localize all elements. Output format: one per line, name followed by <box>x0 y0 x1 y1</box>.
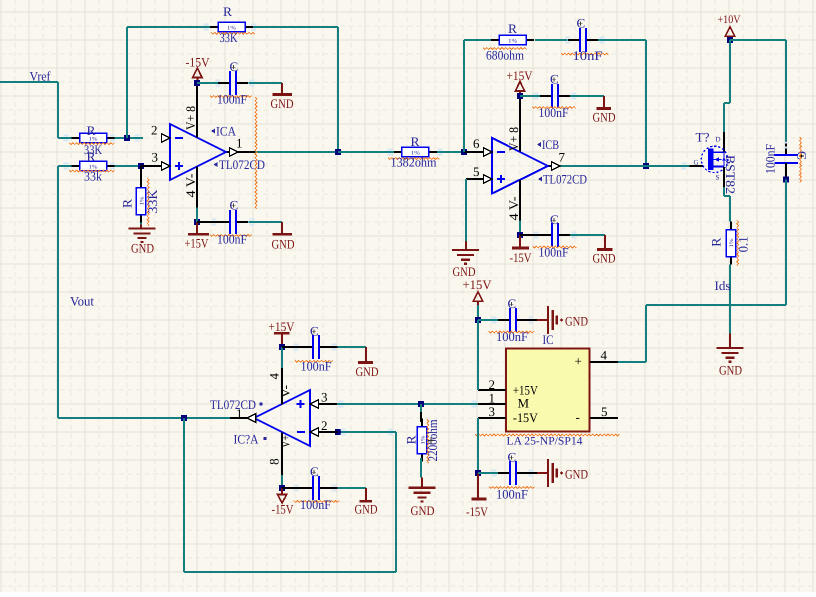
label R fb <box>223 4 232 19</box>
op-amp ICB 4 V- label <box>506 197 521 221</box>
wire ICB feedback right vertical <box>645 40 647 166</box>
svg-text:4: 4 <box>601 348 608 363</box>
pin 4 LA25 <box>590 348 618 363</box>
wire ICB feedback top a <box>464 39 491 41</box>
wire pin2 row IC?A <box>338 431 396 433</box>
svg-text:3: 3 <box>489 404 496 419</box>
op-amp ICA V+ 8 label <box>183 106 198 130</box>
op-amp IC?A pin 3 arrow <box>310 400 319 409</box>
op-amp ICB triangle <box>492 138 548 194</box>
label C LA25-bottom <box>508 450 517 465</box>
ground GND bar ICA-bottom <box>272 222 295 252</box>
wire pin4 net <box>618 305 786 362</box>
capacitor C 100nF IC?A-top <box>282 335 366 359</box>
svg-text:V-: V- <box>277 385 292 398</box>
resistor R 1382ohm <box>394 147 437 156</box>
svg-text:5: 5 <box>473 164 480 179</box>
wire ICA out to R1382 <box>338 151 395 153</box>
op-amp ICB V+ pin 8 line <box>519 96 521 152</box>
label R 1382 <box>411 134 420 149</box>
pin number 2 IC?A <box>321 418 328 433</box>
ground GND under R0.1 <box>717 348 744 378</box>
svg-text:10nF: 10nF <box>573 48 603 63</box>
ground GND rot LA25-top <box>528 306 588 334</box>
svg-text:+15V: +15V <box>463 277 493 292</box>
op-amp IC?A V- pin 4 line <box>281 368 283 405</box>
svg-text:G: G <box>694 159 699 167</box>
wire gate <box>646 165 703 167</box>
svg-text:6: 6 <box>473 136 480 151</box>
resistor R 0.1 <box>726 222 735 265</box>
svg-text:S: S <box>716 174 720 182</box>
svg-text:R: R <box>223 4 232 19</box>
svg-text:R: R <box>120 199 135 208</box>
svg-text:+15V: +15V <box>269 319 296 334</box>
svg-text:R: R <box>404 435 419 444</box>
svg-text:M: M <box>518 395 530 410</box>
node Vref label <box>30 69 52 84</box>
op-amp IC?A V- label <box>277 385 292 398</box>
value TL072CD IC?A <box>210 397 263 412</box>
svg-text:1%: 1% <box>729 238 735 247</box>
svg-text:7: 7 <box>559 150 566 165</box>
resistor R 680ohm feedback <box>491 35 534 44</box>
power +10V <box>718 14 742 40</box>
junction ICA V- node <box>194 219 200 225</box>
wire Vout loop bottom <box>184 571 396 573</box>
svg-text:100nF: 100nF <box>301 359 332 374</box>
svg-text:Vout: Vout <box>70 294 94 309</box>
value 100nF right-cap <box>763 137 802 183</box>
capacitor C 100nF ICB-bottom <box>520 223 605 247</box>
svg-text:TL072CD: TL072CD <box>219 157 265 172</box>
value 10nF <box>561 48 609 63</box>
pin label D <box>716 136 721 144</box>
svg-text:100nF: 100nF <box>217 92 247 107</box>
svg-text:R: R <box>709 237 724 246</box>
svg-text:-15V: -15V <box>466 504 489 519</box>
capacitor C 100nF IC?A-bottom <box>282 476 366 500</box>
pin number 7 ICB <box>559 150 566 165</box>
ground GND under ICB pin5 <box>452 250 479 279</box>
svg-text:100nF: 100nF <box>496 329 528 344</box>
svg-text:GND: GND <box>593 251 616 266</box>
svg-text:GND: GND <box>565 313 588 328</box>
label C ICB-top <box>550 72 559 87</box>
svg-text:1%: 1% <box>508 38 517 44</box>
junction LA25 -15V node <box>475 470 481 476</box>
op-amp ICB V+ 8 label <box>506 127 521 151</box>
op-amp ICA V+ pin 8 line <box>196 83 198 138</box>
svg-text:R: R <box>411 134 420 149</box>
junction +10V node <box>727 37 733 43</box>
power +15V IC?A <box>269 319 296 347</box>
op-amp ICA 4 V- label <box>183 174 198 198</box>
value 100nF IC?A-bottom <box>294 497 340 512</box>
wire R2200 hang <box>420 404 422 422</box>
power -15V IC?A <box>272 488 295 516</box>
svg-text:T?: T? <box>696 130 710 145</box>
wire pin3 junction to opamp <box>141 165 161 167</box>
junction ICA output node <box>335 149 341 155</box>
svg-text:3: 3 <box>321 390 328 405</box>
pin number 3 ICA <box>152 150 159 165</box>
wire ICA feedback top left <box>127 26 210 28</box>
svg-text:33K: 33K <box>220 30 238 45</box>
op-amp IC?A V+ label <box>278 435 293 448</box>
wire IC?A pin4 up <box>281 347 283 368</box>
wire drain pin <box>723 132 725 152</box>
label C 10nF <box>577 16 586 31</box>
svg-text:4 V-: 4 V- <box>183 174 198 198</box>
svg-text:GND: GND <box>272 237 295 252</box>
capacitor C 100nF LA25-top <box>478 308 528 332</box>
svg-text:4: 4 <box>267 373 282 380</box>
op-amp ICA V- pin 4 line <box>196 167 198 208</box>
op-amp ICA pin 3 arrow <box>162 162 171 171</box>
component LA25 box <box>506 348 590 431</box>
capacitor C 100nF ICA-top <box>197 71 282 95</box>
value 1382ohm <box>388 155 439 170</box>
junction right-cap bottom <box>783 176 789 182</box>
wire ICB pin5 down <box>465 179 467 250</box>
svg-text:V+: V+ <box>278 435 293 448</box>
junction ICB pin6 node <box>461 149 467 155</box>
svg-text:8: 8 <box>266 458 281 465</box>
svg-text:R: R <box>87 123 96 138</box>
junction Vout node <box>181 415 187 421</box>
wire +10V down to drain <box>724 40 730 132</box>
svg-text:GND: GND <box>593 110 616 125</box>
wire ICA output <box>226 151 338 153</box>
ground GND bar IC?A-bottom <box>355 488 378 516</box>
svg-text:+10V: +10V <box>718 14 742 26</box>
label C IC?A-bottom <box>310 464 319 479</box>
svg-text:100nF: 100nF <box>217 232 247 247</box>
junction ICB V- node <box>517 232 523 238</box>
label R row1 <box>87 123 96 138</box>
op-amp IC?A output arrow <box>247 414 256 423</box>
wire ICB pin5 stub <box>466 178 484 180</box>
value 680ohm <box>483 48 527 63</box>
svg-text:ICB: ICB <box>542 137 559 152</box>
junction R2200 hang node <box>418 401 424 407</box>
svg-text:-15V: -15V <box>510 250 533 265</box>
svg-text:GND: GND <box>719 363 742 378</box>
junction ICB output node <box>643 163 649 169</box>
pin number 1 ICA <box>236 135 243 150</box>
svg-text:BST82: BST82 <box>723 155 738 194</box>
value LA 25-NP/SP14 <box>475 434 619 447</box>
transistor T? BST82 <box>701 146 727 172</box>
svg-text:GND: GND <box>411 503 435 518</box>
power -15V ICB <box>510 235 533 265</box>
wire R33K ground hang <box>140 166 142 181</box>
pin name plus <box>575 354 582 369</box>
svg-text:33K: 33K <box>145 189 160 214</box>
value 100nF ICA-bottom <box>210 232 252 247</box>
label R 0.1 <box>709 237 724 246</box>
resistor R 33K vertical <box>136 180 145 223</box>
capacitor C 100nF ICA-bottom <box>197 210 282 234</box>
power -15V LA25 <box>466 473 489 519</box>
label C LA25-top <box>508 296 517 311</box>
op-amp ICB output arrow <box>552 162 561 171</box>
op-amp IC?A V+ pin 8 line <box>281 433 283 475</box>
wire ICA pin4 to junction <box>196 208 198 223</box>
wire +15V rail to pin2 <box>477 320 479 390</box>
op-amp IC?A triangle <box>254 390 310 446</box>
pin label S <box>716 174 720 182</box>
designator ICB <box>537 137 559 152</box>
designator IC LA25 <box>543 332 554 347</box>
ground GND bar ICB-bottom <box>593 235 616 266</box>
wire IC?A pin8 down <box>281 475 283 488</box>
svg-text:GND: GND <box>356 364 379 379</box>
junction pin2 IC?A node <box>335 429 341 435</box>
wire R2200 to GND <box>421 458 422 488</box>
junction LA25 +15V node <box>475 317 481 323</box>
ground GND rot LA25-bottom <box>528 459 588 487</box>
label C ICB-bottom <box>550 212 559 227</box>
wire ICB pin6 stub <box>464 151 484 153</box>
pin number 2 ICA <box>151 123 158 138</box>
svg-text:+: + <box>575 354 582 369</box>
wire pin3 down rail <box>477 418 479 473</box>
wire source to R0.1 <box>724 187 730 222</box>
svg-text:100nF: 100nF <box>763 144 778 174</box>
label C ICA-top <box>230 59 239 74</box>
wire Vout loop down <box>183 418 185 572</box>
svg-text:100nF: 100nF <box>300 497 331 512</box>
wire right cap down <box>785 180 787 306</box>
svg-text:100nF: 100nF <box>539 245 569 260</box>
svg-text:IC?A: IC?A <box>234 432 260 447</box>
junction IC?A V+ supply node <box>279 485 285 491</box>
value TL072CD ICA <box>214 157 266 172</box>
wire Vref input <box>0 82 58 138</box>
value TL072CD ICB <box>538 171 587 186</box>
designator ICA <box>211 124 237 139</box>
resistor R top-input 33K <box>72 133 115 142</box>
svg-text:Ids: Ids <box>715 278 731 293</box>
capacitor C 10nF feedback <box>568 28 598 52</box>
wire ICB feedback top c <box>598 39 646 41</box>
capacitor C 100nF ICB-top <box>520 84 604 108</box>
svg-text:0.1: 0.1 <box>736 236 751 252</box>
op-amp ICB pin 5 arrow <box>484 175 493 184</box>
wire Vref to R pin2 row <box>58 137 73 139</box>
svg-text:TL072CD: TL072CD <box>210 397 256 412</box>
svg-text:GND: GND <box>271 96 294 111</box>
label R 2200 <box>404 435 419 444</box>
wire ICA feedback right vertical <box>337 27 339 152</box>
pin number 3 IC?A <box>321 390 328 405</box>
wire R0.1 to GND <box>729 265 731 349</box>
value 33K vert <box>145 178 160 226</box>
pin name minus <box>576 410 580 425</box>
op-amp ICA triangle <box>170 124 226 180</box>
wire ICB output <box>548 165 646 167</box>
svg-text:Vref: Vref <box>30 69 52 84</box>
value 100nF LA25-bottom <box>489 487 535 502</box>
svg-text:100nF: 100nF <box>539 105 569 120</box>
wire Vout loop right <box>395 432 397 572</box>
svg-text:R: R <box>87 149 96 164</box>
pin label G <box>694 159 699 167</box>
svg-text:1382ohm: 1382ohm <box>391 155 437 170</box>
junction ICB V+ node <box>517 93 523 99</box>
label C IC?A-top <box>310 324 319 339</box>
svg-text:GND: GND <box>355 501 378 516</box>
wire connection indicator marks <box>64 24 789 492</box>
pin number 1 IC?A <box>236 406 243 421</box>
wire R33K to GND <box>140 222 142 228</box>
value 100nF ICA-top <box>210 92 257 210</box>
junction IC?A V- supply node <box>279 344 285 350</box>
wire ICB pin4 to junction <box>519 221 521 235</box>
op-amp IC?A 8 label <box>266 458 281 465</box>
svg-text:-15V: -15V <box>272 501 295 516</box>
op-amp ICA output arrow <box>230 148 239 157</box>
power +15V LA25 <box>463 277 493 320</box>
svg-text:R: R <box>508 21 517 36</box>
svg-text:+15V: +15V <box>185 236 209 251</box>
wire Vout vertical long <box>58 166 73 418</box>
resistor R feedback 33K <box>210 22 253 31</box>
svg-text:100nF: 100nF <box>496 487 528 502</box>
designator IC?A <box>234 432 267 447</box>
svg-text:5: 5 <box>601 404 608 419</box>
wire ICB feedback top b <box>535 39 568 41</box>
svg-text:-: - <box>576 410 580 425</box>
svg-text:2: 2 <box>151 123 158 138</box>
op-amp ICB V- pin 4 line <box>519 180 521 221</box>
value 2200ohm <box>425 419 440 463</box>
svg-text:TL072CD: TL072CD <box>543 171 587 186</box>
junction ICA V+ node <box>194 80 200 86</box>
svg-text:680ohm: 680ohm <box>486 48 524 63</box>
label R vert33K <box>120 199 135 208</box>
wire ICB feedback vertical left <box>463 40 465 152</box>
svg-text:D: D <box>716 136 721 144</box>
label T? <box>696 130 710 145</box>
value 100nF ICB-top <box>532 105 576 120</box>
value 33K row1 <box>69 142 115 157</box>
ground GND bar ICA-top <box>271 83 294 111</box>
op-amp ICA pin 2 arrow <box>162 134 171 143</box>
label C ICA-bottom <box>230 198 239 213</box>
power -15V ICA <box>186 55 211 84</box>
power +15V ICB <box>507 68 534 96</box>
wire +10V to right cap column <box>730 40 786 141</box>
value 100nF ICB-bottom <box>533 245 577 260</box>
ground GND under 33K <box>129 228 156 255</box>
capacitor C 100nF right <box>775 141 799 180</box>
wire pin2 stub IC?A <box>319 431 339 433</box>
svg-text:IC: IC <box>543 332 554 347</box>
value 33k row2 <box>69 169 115 184</box>
wire R to pin2 junction <box>114 137 144 139</box>
op-amp ICB pin 6 arrow <box>484 148 493 157</box>
pin number 6 ICB <box>473 136 480 151</box>
wire IC?A output stub <box>230 417 247 419</box>
value 100nF IC?A-top <box>295 359 333 374</box>
op-amp IC?A 4 label <box>267 373 282 380</box>
value 0.1 <box>736 220 751 266</box>
ground GND bar IC?A-top <box>356 347 379 379</box>
svg-text:V+ 8: V+ 8 <box>183 106 198 130</box>
pin 5 LA25 <box>590 404 618 419</box>
ground GND bar ICB-top <box>593 96 616 125</box>
value 100nF LA25-top <box>489 329 535 344</box>
wire source pin <box>723 167 725 187</box>
ground GND under R2200 <box>409 488 436 518</box>
wire pin3 row IC?A <box>319 403 479 405</box>
capacitor C 100nF LA25-bottom <box>478 461 528 485</box>
pin name M <box>518 395 530 410</box>
svg-text:LA 25-NP/SP14: LA 25-NP/SP14 <box>507 435 583 447</box>
value 33K fb <box>211 30 255 45</box>
pin 3 LA25 <box>478 404 506 419</box>
svg-text:1: 1 <box>236 135 243 150</box>
label R 680 <box>508 21 517 36</box>
resistor R 2200ohm <box>417 419 426 462</box>
junction pin2 node <box>124 135 130 141</box>
svg-text:-15V: -15V <box>513 410 539 425</box>
node Vout label <box>70 294 94 309</box>
svg-text:GND: GND <box>131 241 154 256</box>
svg-text:ICA: ICA <box>216 124 237 139</box>
label R row2 <box>87 149 96 164</box>
wire R to pin3 junction <box>114 165 142 167</box>
power +15V ICA <box>185 222 210 251</box>
svg-text:3: 3 <box>152 150 159 165</box>
wire Vout row <box>58 417 230 419</box>
pin name +15V <box>513 382 539 397</box>
svg-text:V+ 8: V+ 8 <box>506 127 521 151</box>
pin 2 LA25 <box>478 377 506 392</box>
pin 1 LA25 <box>478 390 506 405</box>
op-amp IC?A pin 2 arrow <box>310 428 319 437</box>
svg-text:4 V-: 4 V- <box>506 197 521 221</box>
svg-text:33k: 33k <box>84 169 102 184</box>
pin name -15V <box>513 410 539 425</box>
resistor R bottom-input 33k <box>72 161 115 170</box>
junction pin3 node <box>138 163 144 169</box>
pin number 5 ICB <box>473 164 480 179</box>
wire ICA feedback vertical <box>126 27 128 138</box>
wire ICA feedback top right <box>253 26 338 28</box>
node Ids label <box>715 278 731 293</box>
svg-text:GND: GND <box>565 466 588 481</box>
label C right-cap <box>795 151 810 160</box>
svg-text:2: 2 <box>321 418 328 433</box>
value BST82 <box>723 155 738 194</box>
wire R1382 to pin6 junction <box>436 151 464 153</box>
